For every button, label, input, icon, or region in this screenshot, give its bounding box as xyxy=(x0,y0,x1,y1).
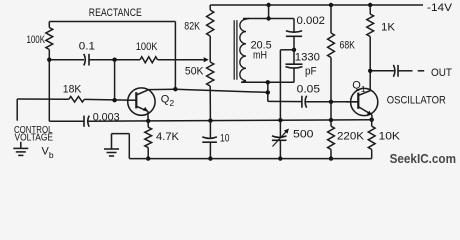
svg-text:pF: pF xyxy=(305,66,317,78)
svg-text:-14V: -14V xyxy=(427,2,453,14)
svg-text:REACTANCE: REACTANCE xyxy=(89,7,142,19)
svg-text:68K: 68K xyxy=(340,40,356,52)
svg-text:100K: 100K xyxy=(136,41,158,53)
svg-text:mH: mH xyxy=(253,50,267,62)
svg-text:18K: 18K xyxy=(63,84,82,96)
svg-text:1K: 1K xyxy=(381,22,396,34)
svg-text:50K: 50K xyxy=(185,66,204,78)
svg-text:0.002: 0.002 xyxy=(297,15,326,27)
svg-text:SeekIC.com: SeekIC.com xyxy=(390,152,456,166)
svg-text:VOLTAGE: VOLTAGE xyxy=(15,132,54,143)
svg-text:10: 10 xyxy=(220,133,230,145)
svg-text:500: 500 xyxy=(293,128,314,140)
svg-text:100K: 100K xyxy=(27,34,46,46)
svg-text:0.05: 0.05 xyxy=(297,83,320,95)
svg-text:0.003: 0.003 xyxy=(93,112,120,124)
svg-text:4.7K: 4.7K xyxy=(156,131,180,143)
svg-text:220K: 220K xyxy=(337,130,365,142)
svg-text:0.1: 0.1 xyxy=(79,41,95,53)
svg-text:10K: 10K xyxy=(379,130,401,142)
svg-text:82K: 82K xyxy=(184,21,200,33)
svg-text:OSCILLATOR: OSCILLATOR xyxy=(387,95,446,107)
svg-text:1330: 1330 xyxy=(295,52,320,64)
svg-text:OUT: OUT xyxy=(431,67,452,79)
